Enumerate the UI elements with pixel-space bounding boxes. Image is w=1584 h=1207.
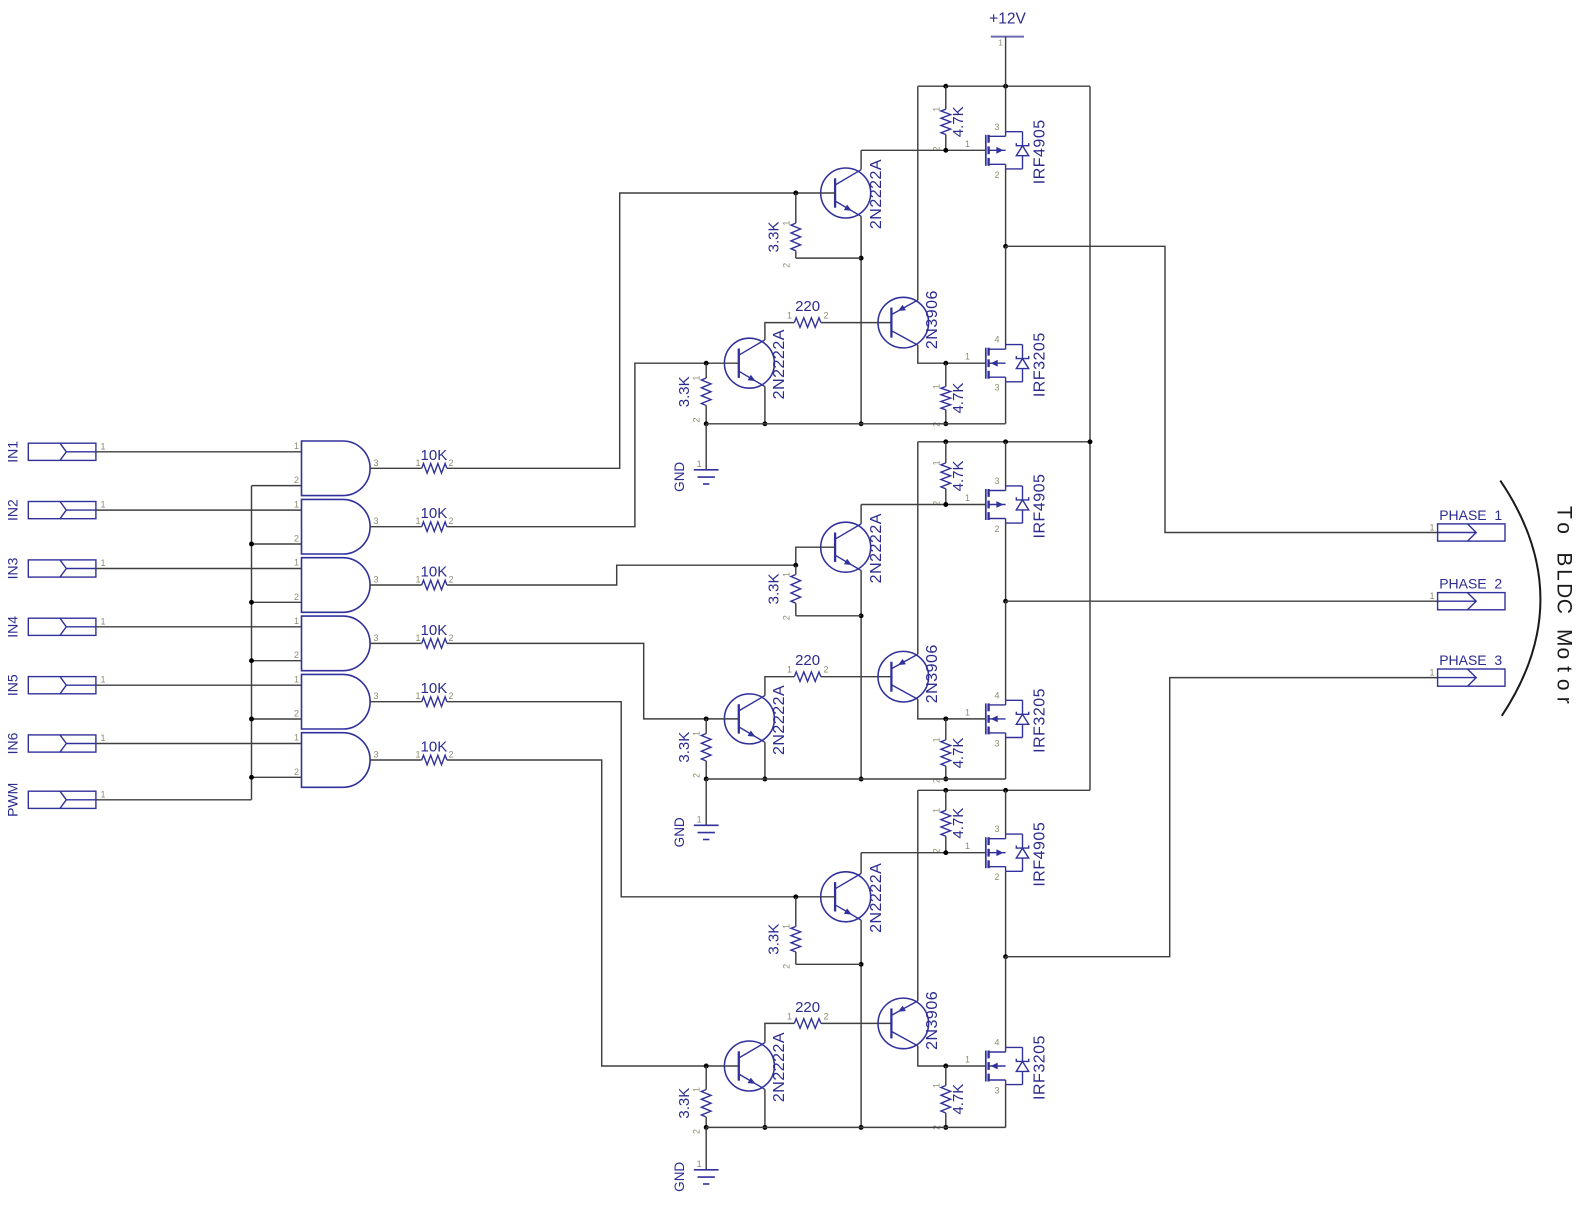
p-mosfet IRF4905 stage 2 [965, 474, 1049, 539]
wire IN4 to gate pin1 [96, 626, 302, 628]
wire R5 to driver base [447, 702, 796, 897]
resistor R3 10K [415, 564, 453, 590]
svg-text:220: 220 [795, 999, 820, 1016]
stage 1 PNP collector wire [918, 345, 986, 363]
svg-text:1: 1 [998, 38, 1003, 48]
connector PHASE 1 [1429, 507, 1505, 541]
stage 2 NMOS drain wire from phase node [1005, 601, 1007, 700]
stage 2 +12V top rail wire [918, 441, 1090, 443]
wire IN6 to gate pin1 [96, 743, 302, 745]
transistor 2N3906 stage 2 [878, 644, 941, 703]
svg-text:2N2222A: 2N2222A [771, 329, 788, 399]
svg-text:3: 3 [994, 1086, 999, 1096]
svg-text:4.7K: 4.7K [950, 460, 967, 491]
wire phase 3 [1006, 678, 1438, 957]
svg-text:1: 1 [965, 707, 970, 717]
svg-text:1: 1 [965, 493, 970, 503]
n-mosfet IRF3205 stage 2 [965, 688, 1049, 753]
junction rail/PMOS source [1003, 84, 1008, 89]
wire +12V right distribution vertical [1089, 86, 1091, 790]
svg-text:PHASE 3: PHASE 3 [1439, 652, 1502, 668]
svg-text:3.3K: 3.3K [676, 1088, 693, 1119]
svg-text:2: 2 [294, 650, 299, 660]
resistor 3.3K upper stage 1 [765, 193, 800, 268]
svg-text:1: 1 [101, 789, 106, 799]
svg-text:1: 1 [1429, 591, 1434, 601]
wire bus to gate6 pin2 [252, 776, 302, 778]
junction 4.7K/ground rail [943, 777, 948, 782]
p-mosfet IRF4905 stage 3 [965, 822, 1049, 887]
transistor 2N2222A lower stage 2 [724, 685, 788, 755]
junction phase node [1003, 244, 1008, 249]
svg-text:1: 1 [781, 924, 791, 929]
junction NMOS gate wire/4.7K [943, 361, 948, 366]
junction upper base node [793, 191, 798, 196]
resistor 220 stage 1 [787, 298, 829, 327]
junction rail/4.7K [943, 788, 948, 793]
label To BLDC Motor [1553, 506, 1576, 704]
resistor R2 10K [415, 505, 453, 531]
svg-text:1: 1 [697, 1159, 702, 1169]
svg-text:r: r [1553, 697, 1576, 704]
junction 4.7K/ground rail [943, 1125, 948, 1130]
svg-text:1: 1 [787, 665, 792, 675]
stage 3 PMOS drain wire to phase node [1005, 871, 1007, 956]
svg-text:1: 1 [931, 107, 941, 112]
wire IN1 to gate pin1 [96, 451, 302, 453]
ground symbol stage 3 [672, 1159, 718, 1192]
connector IN1 [5, 441, 106, 463]
wire R1 to driver base [447, 193, 796, 468]
stage 2 lower NPN collector wire [765, 677, 794, 696]
resistor 3.3K lower stage 3 [676, 1066, 711, 1134]
svg-text:1: 1 [1429, 523, 1434, 533]
transistor 2N3906 stage 3 [878, 991, 941, 1050]
svg-text:1: 1 [692, 1087, 702, 1092]
svg-text:4.7K: 4.7K [950, 1084, 967, 1115]
transistor 2N2222A lower stage 1 [724, 329, 788, 399]
svg-text:4.7K: 4.7K [950, 808, 967, 839]
svg-text:PHASE 1: PHASE 1 [1439, 507, 1502, 523]
connector IN3 [5, 557, 106, 579]
stage 3 NMOS drain wire from phase node [1005, 957, 1007, 1048]
junction lower base node [704, 716, 709, 721]
junction lower base node [704, 1064, 709, 1069]
stage 1 NMOS source wire [1005, 382, 1007, 424]
svg-text:3: 3 [994, 824, 999, 834]
svg-text:2: 2 [824, 665, 829, 675]
svg-text:1: 1 [1429, 668, 1434, 678]
stage 1 NMOS drain wire from phase node [1005, 246, 1007, 344]
junction phase node [1003, 954, 1008, 959]
connector IN5 [5, 674, 106, 696]
svg-text:3: 3 [994, 738, 999, 748]
stage 2 PMOS gate wire [861, 504, 986, 506]
AND gate U6 [294, 733, 379, 788]
stage 3 PNP collector wire [918, 1046, 986, 1066]
connector IN2 [5, 499, 106, 521]
resistor R1 10K [415, 447, 453, 473]
junction bus gate2 [249, 542, 254, 547]
wire IN5 to gate pin1 [96, 684, 302, 686]
svg-text:2: 2 [781, 263, 791, 268]
svg-text:2: 2 [449, 458, 454, 468]
svg-text:IN4: IN4 [5, 616, 21, 638]
connector IN4 [5, 616, 106, 638]
connector PHASE 2 [1429, 576, 1505, 610]
stage 2 PMOS drain wire to phase node [1005, 523, 1007, 601]
svg-text:B: B [1553, 552, 1576, 566]
svg-text:3: 3 [374, 575, 379, 585]
svg-text:PWM: PWM [5, 783, 21, 817]
svg-text:2: 2 [449, 516, 454, 526]
svg-text:2: 2 [449, 691, 454, 701]
junction gate wire/4.7K [943, 502, 948, 507]
svg-text:2N2222A: 2N2222A [868, 863, 885, 933]
transistor 2N2222A upper stage 2 [821, 513, 886, 583]
svg-text:3.3K: 3.3K [676, 732, 693, 763]
svg-text:10K: 10K [421, 622, 448, 639]
svg-text:GND: GND [672, 817, 687, 847]
svg-text:IRF3205: IRF3205 [1032, 332, 1049, 397]
connector PWM [5, 783, 106, 817]
junction upper base node [793, 563, 798, 568]
junction emitter/ground rail [859, 1125, 864, 1130]
p-mosfet IRF4905 stage 1 [965, 119, 1049, 184]
svg-text:3: 3 [374, 633, 379, 643]
junction gate wire/4.7K [943, 850, 948, 855]
svg-text:IN2: IN2 [5, 499, 21, 521]
stage 3 lower NPN base wire [706, 1065, 739, 1067]
stage 3 3.3K bottom wire [796, 963, 861, 965]
svg-text:1: 1 [101, 441, 106, 451]
junction emitter/ground rail [859, 777, 864, 782]
ground symbol stage 1 [672, 459, 718, 492]
svg-text:1: 1 [294, 674, 299, 684]
stage 3 NMOS source wire [1005, 1085, 1007, 1128]
svg-text:10K: 10K [421, 564, 448, 581]
stage 2 NMOS source wire [1005, 738, 1007, 780]
svg-text:2: 2 [692, 1129, 702, 1134]
svg-text:1: 1 [965, 841, 970, 851]
stage 1 lower NPN collector wire [765, 323, 794, 340]
stage 2 3.3K bottom wire [796, 615, 861, 617]
svg-text:2: 2 [294, 475, 299, 485]
stage 1 upper NPN collector wire [860, 150, 862, 169]
stage 1 lower NPN emitter wire [764, 387, 766, 424]
svg-text:2N3906: 2N3906 [924, 991, 941, 1050]
svg-text:2: 2 [294, 592, 299, 602]
AND gate U2 [294, 499, 379, 554]
resistor 4.7K pull-up stage 1 [931, 86, 967, 151]
svg-text:IN3: IN3 [5, 557, 21, 579]
svg-text:1: 1 [965, 1055, 970, 1065]
junction lower emitter/ground rail [762, 421, 767, 426]
svg-text:2: 2 [692, 773, 702, 778]
wire R2 to driver base [447, 363, 706, 527]
svg-text:3: 3 [374, 691, 379, 701]
svg-text:T: T [1553, 506, 1576, 519]
wire R4 to driver base [447, 643, 706, 719]
wire gate5 output [370, 701, 422, 703]
power flag +12V [989, 11, 1026, 48]
svg-text:3: 3 [994, 122, 999, 132]
stage 2 wire rail to PNP emitter (left vertical) [917, 442, 919, 654]
wire bus to gate3 pin2 [252, 601, 302, 603]
svg-text:3: 3 [994, 476, 999, 486]
svg-text:IRF3205: IRF3205 [1032, 688, 1049, 753]
svg-text:4.7K: 4.7K [950, 383, 967, 414]
svg-text:1: 1 [415, 691, 420, 701]
junction lower emitter/ground rail [762, 777, 767, 782]
stage 3 upper NPN collector wire [860, 853, 862, 874]
stage 1 +12V top rail wire [918, 85, 1090, 87]
svg-text:o: o [1553, 647, 1576, 659]
svg-text:IRF4905: IRF4905 [1032, 119, 1049, 184]
svg-text:1: 1 [101, 616, 106, 626]
svg-text:3.3K: 3.3K [676, 376, 693, 407]
stage 1 lower NPN base wire [706, 362, 739, 364]
junction NMOS gate wire/4.7K [943, 716, 948, 721]
stage 3 upper NPN emitter wire [860, 920, 862, 1127]
svg-text:1: 1 [692, 731, 702, 736]
resistor R4 10K [415, 622, 453, 648]
junction NMOS gate wire/4.7K [943, 1064, 948, 1069]
junction emitter/ground rail [859, 421, 864, 426]
svg-text:2: 2 [449, 575, 454, 585]
svg-text:1: 1 [931, 384, 941, 389]
svg-text:1: 1 [965, 352, 970, 362]
wire bus to gate1 pin2 [252, 485, 302, 487]
junction emitter/3.3K [859, 613, 864, 618]
motor bracket arc [1500, 481, 1540, 716]
svg-text:D: D [1553, 583, 1576, 598]
junction rail/PMOS source [1003, 439, 1008, 444]
stage 2 220 to PNP base wire [821, 676, 892, 678]
svg-text:10K: 10K [421, 739, 448, 756]
svg-text:1: 1 [787, 1011, 792, 1021]
svg-text:1: 1 [294, 616, 299, 626]
connector IN6 [5, 732, 106, 754]
junction bus gate6 [249, 775, 254, 780]
resistor 4.7K pull-down stage 2 [931, 719, 967, 783]
svg-text:IRF3205: IRF3205 [1032, 1035, 1049, 1100]
svg-text:IN6: IN6 [5, 732, 21, 754]
stage 1 wire rail to PNP emitter (left vertical) [917, 86, 919, 300]
svg-text:1: 1 [692, 376, 702, 381]
svg-text:2: 2 [294, 534, 299, 544]
stage 2 upper NPN collector wire [860, 505, 862, 524]
svg-text:IN1: IN1 [5, 441, 21, 463]
wire IN3 to gate pin1 [96, 568, 302, 570]
svg-text:C: C [1553, 599, 1576, 614]
svg-text:2: 2 [294, 709, 299, 719]
wire gate2 output [370, 526, 422, 528]
svg-text:10K: 10K [421, 505, 448, 522]
stage 3 GND tap wire [705, 1127, 707, 1169]
svg-text:3.3K: 3.3K [765, 573, 782, 604]
svg-text:3.3K: 3.3K [765, 924, 782, 955]
junction 3.3K/ground rail [704, 777, 709, 782]
resistor 3.3K upper stage 2 [765, 565, 800, 620]
svg-text:t: t [1553, 666, 1576, 672]
svg-text:1: 1 [415, 750, 420, 760]
junction emitter/3.3K [859, 256, 864, 261]
svg-text:3: 3 [994, 383, 999, 393]
stage 2 PMOS source wire [1005, 442, 1007, 486]
svg-text:1: 1 [931, 460, 941, 465]
resistor 220 stage 2 [787, 652, 829, 681]
svg-text:2: 2 [824, 311, 829, 321]
stage 1 PMOS drain wire to phase node [1005, 169, 1007, 246]
stage 1 upper NPN base wire [796, 192, 835, 194]
svg-text:220: 220 [795, 298, 820, 315]
AND gate U5 [294, 674, 379, 729]
stage 1 3.3K bottom wire [796, 257, 861, 259]
svg-text:IRF4905: IRF4905 [1032, 822, 1049, 887]
svg-text:2: 2 [449, 750, 454, 760]
svg-text:2: 2 [994, 872, 999, 882]
n-mosfet IRF3205 stage 1 [965, 332, 1049, 397]
svg-text:1: 1 [294, 558, 299, 568]
svg-text:1: 1 [101, 733, 106, 743]
svg-text:o: o [1553, 679, 1576, 691]
svg-text:3: 3 [374, 458, 379, 468]
stage 1 220 to PNP base wire [821, 322, 892, 324]
n-mosfet IRF3205 stage 3 [965, 1035, 1049, 1100]
junction lower emitter/ground rail [762, 1125, 767, 1130]
stage 2 GND tap wire [705, 779, 707, 825]
junction 4.7K/ground rail [943, 421, 948, 426]
svg-text:1: 1 [697, 814, 702, 824]
svg-text:2: 2 [294, 767, 299, 777]
resistor 4.7K pull-up stage 2 [931, 442, 967, 506]
wire bus to gate2 pin2 [252, 543, 302, 545]
svg-text:1: 1 [931, 737, 941, 742]
stage 2 upper NPN base wire [796, 547, 835, 565]
svg-text:1: 1 [787, 311, 792, 321]
svg-text:1: 1 [101, 558, 106, 568]
junction rail/4.7K [943, 84, 948, 89]
svg-text:1: 1 [697, 459, 702, 469]
svg-text:2N2222A: 2N2222A [771, 1032, 788, 1102]
AND gate U4 [294, 616, 379, 671]
AND gate U3 [294, 558, 379, 613]
svg-text:1: 1 [781, 221, 791, 226]
junction lower base node [704, 361, 709, 366]
stage 3 lower NPN emitter wire [764, 1089, 766, 1127]
svg-text:1: 1 [965, 139, 970, 149]
wire gate1 output [370, 467, 422, 469]
svg-text:o: o [1553, 522, 1576, 534]
svg-text:1: 1 [415, 516, 420, 526]
svg-text:1: 1 [294, 733, 299, 743]
svg-text:2N3906: 2N3906 [924, 290, 941, 349]
svg-text:1: 1 [415, 633, 420, 643]
connector PHASE 3 [1429, 652, 1505, 686]
resistor R6 10K [415, 739, 453, 765]
resistor 4.7K pull-up stage 3 [931, 790, 967, 853]
svg-text:2N3906: 2N3906 [924, 644, 941, 703]
stage 1 upper NPN emitter wire [860, 216, 862, 423]
svg-text:2N2222A: 2N2222A [771, 685, 788, 755]
resistor 3.3K lower stage 2 [676, 719, 711, 779]
stage 3 ground rail wire [706, 1126, 1005, 1128]
svg-text:2: 2 [824, 1011, 829, 1021]
stage 2 ground rail wire [706, 778, 1005, 780]
svg-text:1: 1 [294, 441, 299, 451]
transistor 2N2222A upper stage 1 [821, 159, 886, 229]
junction +12V vertical / stage2 rail [1088, 439, 1093, 444]
svg-text:2N2222A: 2N2222A [868, 159, 885, 229]
svg-text:GND: GND [672, 462, 687, 492]
ground symbol stage 2 [672, 814, 718, 847]
resistor 4.7K pull-down stage 3 [931, 1066, 967, 1130]
junction rail/4.7K [943, 439, 948, 444]
stage 2 upper NPN emitter wire [860, 571, 862, 780]
wire IN2 to gate pin1 [96, 509, 302, 511]
svg-text:3: 3 [374, 516, 379, 526]
resistor 220 stage 3 [787, 999, 829, 1028]
stage 3 PMOS gate wire [861, 852, 986, 854]
svg-text:10K: 10K [421, 447, 448, 464]
svg-text:IN5: IN5 [5, 674, 21, 696]
wire bus to gate4 pin2 [252, 660, 302, 662]
stage 3 220 to PNP base wire [821, 1022, 892, 1024]
svg-text:2N2222A: 2N2222A [868, 513, 885, 583]
svg-text:2: 2 [781, 615, 791, 620]
stage 3 PMOS source wire [1005, 790, 1007, 834]
stage 3 lower NPN collector wire [765, 1023, 794, 1042]
stage 3 wire rail to PNP emitter (left vertical) [917, 790, 919, 1001]
svg-text:2: 2 [449, 633, 454, 643]
transistor 2N3906 stage 1 [878, 290, 941, 349]
stage 2 lower NPN emitter wire [764, 742, 766, 779]
svg-text:1: 1 [101, 500, 106, 510]
svg-text:L: L [1553, 569, 1576, 581]
svg-text:2: 2 [994, 524, 999, 534]
svg-text:+12V: +12V [989, 11, 1026, 28]
wire PWM to bus [96, 799, 252, 801]
svg-text:PHASE 2: PHASE 2 [1439, 576, 1502, 592]
transistor 2N2222A upper stage 3 [821, 863, 886, 933]
stage 1 PMOS gate wire [861, 149, 986, 151]
svg-text:4.7K: 4.7K [950, 106, 967, 137]
wire +12V to stage1 rail [1005, 37, 1007, 87]
wire phase 2 [1006, 600, 1438, 602]
svg-text:1: 1 [101, 675, 106, 685]
resistor 4.7K pull-down stage 1 [931, 363, 967, 427]
svg-text:10K: 10K [421, 680, 448, 697]
wire gate6 output [370, 759, 422, 761]
wire gate4 output [370, 642, 422, 644]
svg-text:1: 1 [415, 458, 420, 468]
wire R3 to driver base [447, 565, 796, 585]
svg-text:4: 4 [994, 335, 999, 345]
wire phase 1 [1006, 246, 1438, 532]
svg-text:2: 2 [781, 964, 791, 969]
svg-text:3.3K: 3.3K [765, 221, 782, 252]
stage 1 GND tap wire [705, 424, 707, 470]
stage 2 lower NPN base wire [706, 718, 739, 720]
stage 2 PNP collector wire [918, 699, 986, 719]
resistor R5 10K [415, 680, 453, 706]
stage 1 PMOS source wire [1005, 86, 1007, 132]
junction emitter/3.3K [859, 962, 864, 967]
svg-text:2: 2 [994, 170, 999, 180]
junction upper base node [793, 894, 798, 899]
AND gate U1 [294, 441, 379, 496]
